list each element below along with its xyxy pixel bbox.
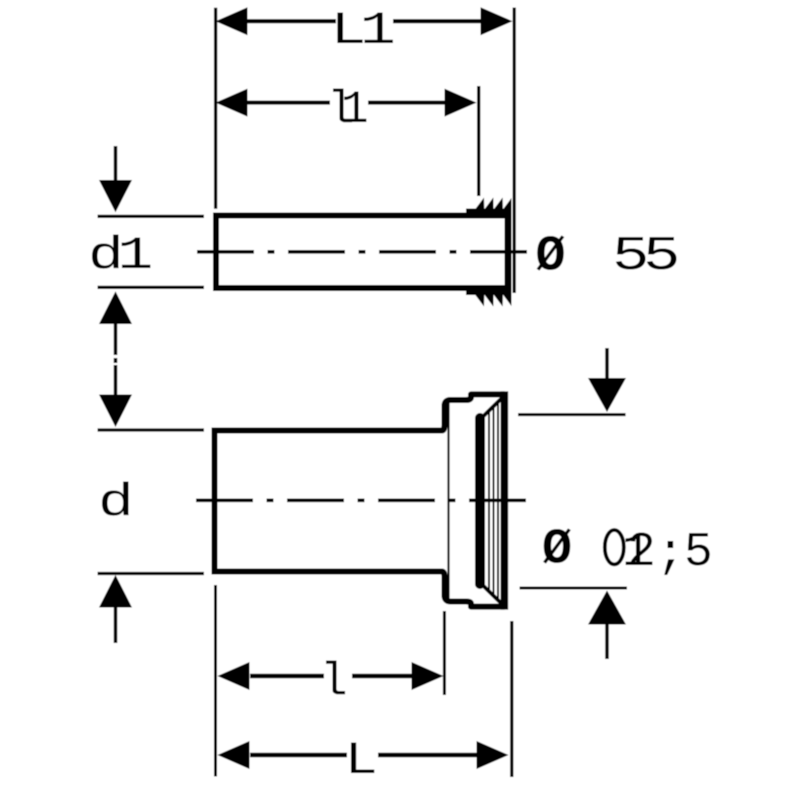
dimension L1 extension line right [513,8,516,294]
dimension flange bottom: extension line [520,587,628,590]
gap dash between arrows [114,358,118,363]
dimension L1 arrowhead right [481,7,513,35]
pipe P1 thread teeth top [475,198,512,210]
dimension L line [250,753,347,757]
dimension d1 arrow bottom [99,291,132,324]
pipe P1 thread teeth bottom [475,295,512,307]
dimension l1 line [246,101,330,105]
dimension l1 arrowhead left [216,89,248,117]
pipe P2 flange right edge [501,391,509,609]
pipe P1 end cap [505,209,512,296]
dimension l arrowhead right [412,662,444,690]
pipe P1 thread band top [466,209,512,219]
pipe P2 bottom edge [212,569,442,575]
dimension L1 line [246,19,336,23]
pipe P2 centerline [196,498,533,502]
dimension d extension line bottom [98,572,205,575]
dimension flange top: extension line [518,413,626,416]
svg-text:L1: L1 [331,6,394,58]
pipe P2 hatch line 1 [488,410,490,592]
dimension l extension line right [443,611,446,695]
svg-text:L: L [345,736,378,788]
dimension L1 extension line left [214,8,217,209]
dimension L arrowhead right [477,741,509,769]
dimension flange bottom: up arrow [588,591,626,625]
dimension L arrowhead left [218,741,250,769]
pipe P1 bottom edge [213,285,468,291]
svg-text:5: 5 [684,526,713,580]
dimension d1 arrow top [114,146,118,182]
svg-text:l: l [320,656,348,708]
pipe P1 top edge [213,213,468,219]
dimension d extension line top [98,428,205,431]
dimension l1 extension line right [477,86,480,196]
svg-text:d: d [98,478,134,530]
dimension d1 extension line bottom [98,286,205,289]
dimension d arrow bottom [99,575,132,608]
dimension flange top: down arrow [605,348,609,379]
dimension l arrowhead left [218,662,250,690]
pipe P2 seal bottom diagonal [483,585,504,606]
svg-text:55: 55 [612,229,677,283]
pipe P2 seal bar [475,413,485,589]
svg-text:2: 2 [627,526,656,580]
dimension d arrow top [114,365,118,395]
svg-text:Ø: Ø [542,522,572,579]
dimension L1 arrowhead left [216,7,248,35]
svg-text:1: 1 [341,84,369,136]
pipe P1 left edge [213,213,219,292]
svg-text:d1: d1 [88,231,151,283]
pipe P2 hatch line 3 [497,401,499,601]
dimension L extension line right [510,621,513,777]
pipe P2 seal top diagonal [483,397,504,418]
pipe P2 left edge [212,428,218,575]
pipe P2 flange outer contour [438,394,504,606]
dimension l extension line left [214,585,217,777]
pipe P2 flange inner wall [447,403,449,599]
svg-text:Ø: Ø [536,229,566,286]
dimension l1 arrowhead right [445,89,477,117]
dimension d1 extension line top [98,215,205,218]
pipe P2 top edge [212,428,442,434]
pipe P2 hatch line 2 [493,405,495,597]
pipe P1 centerline [197,250,533,254]
dimension l line [250,674,324,678]
pipe P1 thread band bottom [466,285,512,295]
svg-text:;: ; [656,528,685,582]
